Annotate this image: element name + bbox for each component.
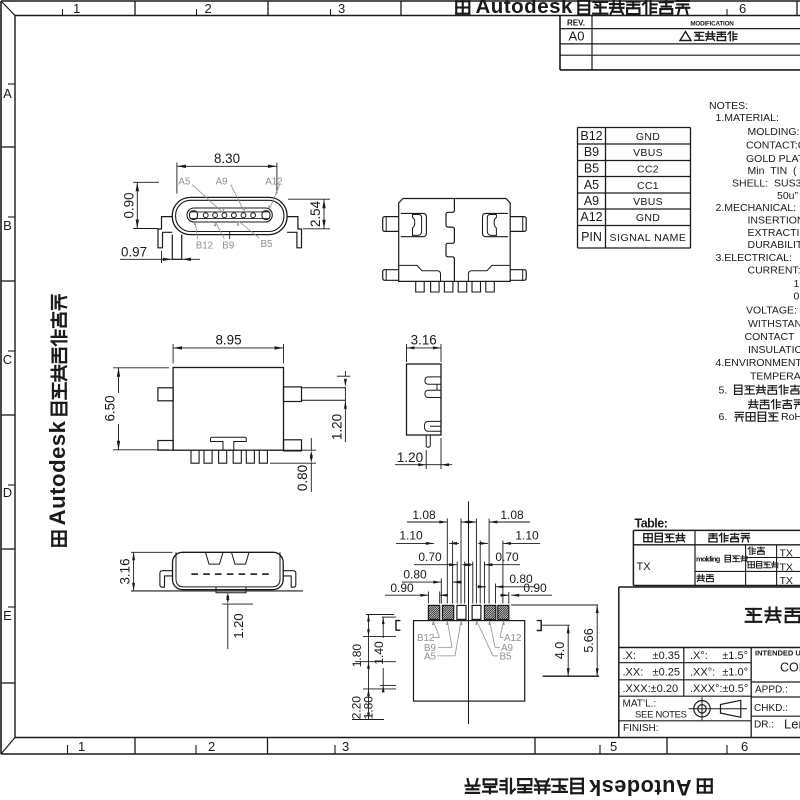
watermark text left (rotated): 由 Autodesk 教育版产品制作: [45, 295, 70, 545]
svg-text:B12: B12: [580, 129, 602, 143]
bottom stadium view: bottom notch: [216, 587, 246, 593]
svg-text:0.97: 0.97: [121, 245, 147, 260]
svg-text:CON: CON: [780, 661, 800, 675]
watermark text top: 由 Autodesk 教育版产品制作: [456, 0, 689, 18]
top view: right lower tab: [284, 440, 302, 451]
border zone numbers top: [73, 1, 746, 16]
svg-text:CONTACT: CONTACT: [745, 331, 796, 343]
bottom stadium view: right leg: [283, 571, 296, 588]
parts table header 零件名称: [709, 534, 717, 542]
svg-text:DURABILITY: DURABILITY: [748, 239, 800, 251]
svg-text:TEMPERATU: TEMPERATU: [750, 371, 800, 383]
svg-text:6: 6: [739, 1, 746, 16]
svg-text:CHKD.:: CHKD.:: [754, 703, 788, 714]
svg-text:INSERTION:: INSERTION:: [748, 215, 800, 227]
pin label B5 with leader: [237, 221, 273, 250]
svg-text:A5: A5: [178, 177, 191, 188]
svg-text:5.66: 5.66: [582, 628, 596, 652]
footprint left dimension ticks: [352, 615, 396, 720]
svg-text:MAT’L.:: MAT’L.:: [623, 699, 657, 710]
top view: left upper tab: [158, 388, 173, 401]
notes text block: [709, 100, 800, 383]
svg-text:WITHSTAND: WITHSTAND: [748, 318, 800, 330]
dimension 0.90 pair: [385, 581, 552, 597]
pin table row PIN / SIGNAL NAME: [581, 230, 686, 244]
svg-text:TX: TX: [780, 562, 793, 574]
svg-text:GND: GND: [636, 131, 660, 143]
svg-text:1.20: 1.20: [397, 450, 423, 465]
svg-text:A5: A5: [424, 652, 437, 663]
svg-text:±0.25: ±0.25: [653, 667, 680, 679]
svg-text:2: 2: [208, 739, 215, 754]
footprint pad label A9: [488, 620, 513, 654]
svg-text:±1.0°: ±1.0°: [722, 667, 748, 679]
side view: upper latch: [425, 377, 441, 398]
tolerance .XXX ±0.20: [623, 683, 679, 695]
svg-text:CONTACT:C: CONTACT:C: [746, 140, 800, 152]
svg-text:B: B: [3, 218, 12, 233]
dimension 8.30: [177, 151, 277, 194]
front view: outer shell stadium: [172, 197, 287, 234]
bottom view: solder pins: [416, 281, 495, 292]
svg-text:Autodesk: Autodesk: [45, 420, 70, 525]
svg-text:A12: A12: [580, 210, 602, 224]
dimension 6.50: [103, 368, 170, 450]
svg-text:B12: B12: [196, 240, 213, 251]
footprint: centre line: [468, 501, 470, 724]
dimension 5.66 (footprint): [511, 605, 599, 676]
svg-text:1.MATERIAL:: 1.MATERIAL:: [716, 112, 779, 124]
border zone letters left: [3, 86, 12, 623]
border zone ticks bottom: [68, 738, 728, 755]
svg-text:0.90: 0.90: [390, 581, 414, 595]
footprint: body rectangle: [414, 621, 525, 702]
svg-text:CC2: CC2: [637, 164, 659, 176]
dimension 4.0 (footprint): [542, 625, 570, 676]
svg-text:1.40: 1.40: [372, 641, 386, 665]
footprint pad label B5: [475, 620, 512, 663]
pin label A12 with leader: [265, 177, 282, 211]
dimension 2.54 (front view right): [288, 199, 330, 229]
pin assignment table grid: [578, 128, 691, 249]
footprint: corner bracket right: [537, 621, 542, 631]
front view: contact dots: [203, 213, 255, 218]
pin label B9 with leader: [214, 221, 234, 251]
pin label B12 with leader: [194, 220, 213, 251]
dimension 1.10 pair: [396, 529, 540, 545]
border zone ticks left: [1, 84, 15, 683]
front view centre tick: [229, 231, 231, 239]
front view: left side leg: [158, 217, 172, 248]
svg-text:.XX:: .XX:: [623, 667, 644, 679]
svg-text:A9: A9: [584, 194, 599, 208]
svg-text:0.70: 0.70: [495, 550, 519, 564]
company name 步步兴: [746, 609, 762, 622]
svg-text:5.: 5.: [719, 385, 728, 397]
front view: inner shell line: [176, 200, 284, 231]
svg-text:A: A: [3, 86, 12, 101]
svg-text:.X:: .X:: [623, 650, 636, 662]
svg-text:SIGNAL NAME: SIGNAL NAME: [610, 232, 687, 244]
svg-text:GND: GND: [636, 212, 660, 224]
dimension 1.20 (side view bottom): [395, 438, 452, 469]
svg-text:C: C: [3, 352, 12, 367]
front view: contact strip lines: [190, 212, 270, 219]
svg-text:1.20: 1.20: [231, 613, 246, 638]
svg-text:8.30: 8.30: [214, 151, 240, 166]
svg-text:5: 5: [610, 739, 617, 754]
pin table row A5 / CC1: [584, 178, 659, 192]
svg-text:MODIFICATION: MODIFICATION: [690, 21, 734, 28]
svg-text:TX: TX: [637, 561, 652, 573]
bottom view: left inner hook: [413, 215, 422, 236]
pin table row B12 / GND: [580, 129, 660, 143]
bottom view: right inner hook: [487, 215, 496, 236]
svg-text:8.95: 8.95: [215, 333, 241, 348]
bottom stadium view: outer outline: [173, 552, 284, 589]
svg-text:APPD.:: APPD.:: [755, 685, 788, 696]
svg-text:molding: molding: [696, 555, 721, 564]
svg-text:SHELL: SUS3: SHELL: SUS3: [732, 178, 800, 190]
svg-text:4.0: 4.0: [553, 642, 567, 659]
footprint: corner bracket left: [396, 621, 400, 631]
footprint pad label A5: [424, 620, 462, 663]
svg-text:1.80: 1.80: [350, 644, 364, 668]
svg-text:0.80: 0.80: [295, 465, 310, 491]
top view: right upper tab: [284, 387, 302, 402]
parts table cell molding半成品: [696, 555, 748, 564]
svg-text:RoHS: RoHS: [781, 411, 800, 423]
svg-text:B5: B5: [261, 239, 274, 250]
front view: right side leg: [287, 217, 301, 248]
bottom view: right outer tab: [510, 217, 526, 232]
bottom stadium view: top notch right: [232, 552, 250, 564]
svg-text:3.16: 3.16: [411, 333, 437, 348]
tolerance .XXX° ±0.5°: [690, 683, 748, 695]
svg-text:0.: 0.: [794, 291, 800, 303]
svg-text:FINISH:: FINISH:: [623, 723, 659, 734]
front view: tongue slot: [187, 208, 272, 222]
dimension 1.20 (top view right): [330, 371, 351, 442]
bottom view: left inner block: [401, 213, 427, 236]
svg-text:EXTRACTION: EXTRACTION: [748, 227, 800, 239]
dimension 0.70 pair: [414, 550, 520, 566]
bottom view: left outer tab: [383, 217, 399, 232]
svg-text:CC1: CC1: [637, 180, 659, 192]
footprint pad label A12: [500, 620, 521, 644]
svg-text:TX: TX: [780, 548, 793, 560]
svg-text:4.ENVIRONMENT: 4.ENVIRONMENT: [716, 357, 800, 369]
parts table TX values: [780, 548, 793, 588]
pin table row A9 / VBUS: [584, 194, 663, 208]
top view: lead lines right: [302, 388, 346, 400]
svg-text:3.ELECTRICAL:: 3.ELECTRICAL:: [716, 252, 792, 264]
watermark text bottom (rotated 180): 由 Autodesk 教育版产品制作: [466, 775, 712, 800]
MAT'L cell: [623, 699, 687, 721]
bottom stadium view: inner outline: [176, 552, 280, 587]
svg-text:D: D: [3, 485, 12, 500]
svg-text:±1.5°: ±1.5°: [722, 650, 748, 662]
pin table row A12 / GND: [580, 210, 660, 224]
pin label A5 with leader: [178, 177, 224, 213]
border zone ticks top: [63, 1, 798, 16]
dimension 3.16 (side view): [407, 333, 442, 363]
tolerance .XX° ±1.0°: [690, 667, 748, 679]
bottom view: centre seam jigsaw: [446, 199, 454, 282]
svg-text:E: E: [3, 608, 12, 623]
front view: end contact right: [262, 211, 270, 220]
svg-text:Len: Len: [784, 717, 800, 732]
svg-text:1: 1: [794, 278, 800, 290]
svg-text:0.90: 0.90: [523, 581, 547, 595]
svg-text:2.54: 2.54: [308, 200, 323, 227]
frame corner diagonals: [1, 1, 15, 754]
bottom stadium view: dashed contact line: [191, 573, 268, 575]
svg-text:DR.:: DR.:: [754, 720, 774, 731]
svg-text:±0.35: ±0.35: [653, 650, 680, 662]
bottom stadium view: top notch left: [206, 552, 224, 564]
top view: centre tongue mark: [211, 437, 247, 450]
svg-text:1.20: 1.20: [330, 414, 345, 440]
svg-text:2.MECHANICAL:: 2.MECHANICAL:: [716, 202, 797, 214]
side view: lower latch: [424, 421, 441, 431]
svg-text:1.80: 1.80: [361, 696, 375, 720]
bottom stadium view: seating line: [131, 590, 303, 592]
svg-text:50u”: 50u”: [777, 190, 799, 202]
note 5: 尺寸标注事项: [719, 385, 800, 397]
svg-text:REV.: REV.: [567, 19, 585, 28]
svg-text:6.50: 6.50: [103, 395, 118, 421]
dimension 0.90 (front view left): [122, 182, 160, 228]
revision table grid: [560, 16, 800, 70]
note 5b: 图示有标注: [749, 400, 800, 409]
svg-text:3.16: 3.16: [118, 558, 133, 584]
svg-text:VBUS: VBUS: [633, 196, 663, 208]
revision note triangle + 新版发行: [680, 32, 737, 41]
svg-text:1.10: 1.10: [515, 529, 539, 543]
dimension 8.95: [173, 333, 283, 364]
side view: body rectangle: [407, 364, 442, 435]
pin table row B9 / VBUS: [584, 145, 663, 159]
svg-text:B9: B9: [222, 240, 234, 251]
svg-text:INSULATION: INSULATION: [748, 344, 800, 356]
tolerance .X° ±1.5°: [690, 650, 748, 662]
svg-text:A9: A9: [216, 177, 228, 188]
svg-text:6: 6: [741, 739, 748, 754]
third angle projection symbol: [689, 697, 748, 720]
svg-text:0.70: 0.70: [418, 550, 442, 564]
svg-text:1.08: 1.08: [500, 508, 524, 522]
note 6: 产品符合RoHS: [719, 411, 800, 423]
svg-text:B5: B5: [500, 652, 513, 663]
svg-text:Table:: Table:: [635, 517, 668, 531]
svg-text:SEE NOTES: SEE NOTES: [635, 710, 687, 721]
bottom view: right bottom tab: [510, 270, 526, 281]
front view: bottom mounting leg: [172, 235, 181, 260]
svg-text:A5: A5: [584, 178, 599, 192]
pin table row B5 / CC2: [584, 162, 659, 176]
svg-text:3: 3: [338, 1, 345, 16]
svg-text:B9: B9: [584, 145, 599, 159]
svg-text:VBUS: VBUS: [633, 147, 663, 159]
parts table cell 外壳: [697, 574, 704, 581]
svg-text:A12: A12: [265, 177, 282, 188]
top view: body rectangle: [173, 368, 283, 451]
dimension 1.08 pair: [407, 508, 530, 524]
dimension 0.80 pair: [402, 568, 534, 589]
footprint: solder pads row (hatched + plain): [428, 605, 508, 619]
dimension 1.20 (bottom stadium): [222, 592, 253, 649]
svg-text:.XX°:: .XX°:: [690, 667, 715, 679]
svg-text:Autodesk: Autodesk: [476, 0, 574, 18]
right block rows: [751, 682, 800, 716]
svg-text:0.90: 0.90: [122, 192, 137, 218]
bottom view: body outline: [399, 199, 511, 282]
svg-text:NOTES:: NOTES:: [709, 100, 748, 112]
side view: bottom pin: [426, 435, 430, 447]
svg-text:PIN: PIN: [581, 230, 602, 244]
pin label A9 with leader: [216, 177, 246, 212]
svg-text:Min TIN (: Min TIN (: [748, 165, 798, 177]
tolerance .X ±0.35: [623, 650, 681, 662]
footprint: pad extension lines: [428, 519, 508, 604]
svg-text:MOLDING: P: MOLDING: P: [748, 126, 800, 138]
dimension 3.16 (bottom stadium): [118, 552, 173, 591]
title block outline: [619, 587, 800, 738]
svg-text:2: 2: [205, 1, 212, 16]
bottom view: bottom shelf right: [468, 265, 510, 281]
svg-text:0.80: 0.80: [403, 568, 427, 582]
tolerance .XX ±0.25: [623, 667, 681, 679]
parts table grid: [633, 530, 800, 585]
svg-text:TX: TX: [780, 575, 793, 587]
svg-text:1.08: 1.08: [412, 508, 436, 522]
svg-text:CURRENT:: CURRENT:: [748, 265, 800, 277]
svg-text:.X°:: .X°:: [690, 650, 708, 662]
svg-text:GOLD PLAT: GOLD PLAT: [746, 153, 800, 165]
bottom stadium view: left leg: [160, 571, 173, 588]
top view: left lower tab: [158, 441, 173, 451]
top view: bottom pins: [191, 450, 267, 463]
border zone numbers bottom: [78, 739, 748, 754]
dimension 0.97 (front view bottom): [120, 245, 200, 264]
dimension 0.80 (top view bottom right): [270, 438, 316, 492]
bottom view: left bottom tab: [383, 270, 399, 281]
svg-text:1.10: 1.10: [399, 529, 423, 543]
svg-text:INTENDED U: INTENDED U: [755, 649, 800, 658]
DR label: [754, 717, 800, 732]
svg-text:Autodesk: Autodesk: [588, 775, 691, 800]
svg-text:A0: A0: [569, 29, 585, 44]
svg-text:3: 3: [342, 739, 349, 754]
svg-text::: :: [797, 385, 800, 397]
footprint pad label B12: [417, 620, 440, 644]
svg-text:1: 1: [78, 739, 85, 754]
svg-text:6.: 6.: [719, 411, 728, 423]
footprint pad label B9: [424, 620, 452, 654]
bottom view: bottom shelf left: [399, 265, 441, 281]
svg-text:.XXX°:±0.5°: .XXX°:±0.5°: [690, 683, 748, 695]
svg-text:1: 1: [73, 1, 80, 16]
svg-text:B5: B5: [584, 162, 599, 176]
parts table cell 塑胶材料: [748, 562, 754, 568]
bottom view: right inner block: [483, 213, 509, 236]
parts table header 成品料号: [644, 534, 652, 542]
parts table cell 端子: [748, 547, 755, 554]
svg-text:VOLTAGE: 2: VOLTAGE: 2: [746, 305, 800, 317]
front view: end contact left: [190, 211, 198, 220]
svg-text:.XXX:±0.20: .XXX:±0.20: [623, 683, 679, 695]
